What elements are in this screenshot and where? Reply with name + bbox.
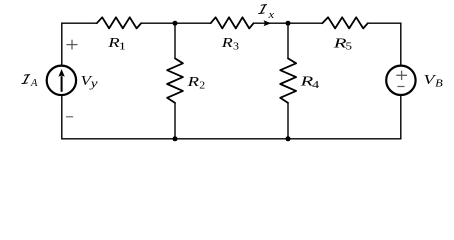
node (bottom, under R2): [173, 136, 178, 141]
wire node B to R5: [288, 22, 322, 24]
svg-text:y: y: [90, 76, 99, 90]
resistor R4 (vertical): [280, 58, 296, 103]
node B (top junction R3/R4/R5): [286, 21, 291, 26]
wire R4 to bottom node: [287, 103, 289, 139]
svg-text:1: 1: [119, 42, 126, 53]
svg-text:x: x: [267, 10, 275, 21]
svg-text:R: R: [186, 74, 200, 89]
svg-text:2: 2: [199, 80, 205, 91]
wire left upper: source IA up, top-left corner, to R1: [62, 23, 97, 65]
wire node A to R3: [175, 22, 211, 24]
node A (top junction R1/R2/R3): [173, 21, 178, 26]
wire R1 to node A: [141, 22, 175, 24]
wire node B down to R4: [287, 23, 289, 58]
wire right upper: R5, top-right corner, down to source VB: [368, 23, 401, 65]
wire R3 to node B: [254, 22, 288, 24]
label Ix: glyph I: [258, 5, 267, 14]
svg-text:A: A: [30, 78, 38, 89]
wire node A down to R2: [174, 23, 176, 58]
svg-text:B: B: [435, 79, 443, 90]
plus sign (gray, above source IA): [66, 40, 77, 50]
minus sign inside VB (gray): [397, 86, 404, 88]
current source IA (circle): [47, 66, 76, 95]
svg-text:4: 4: [312, 80, 319, 91]
svg-text:3: 3: [233, 41, 239, 52]
resistor R2 (vertical): [167, 58, 183, 103]
arrow inside IA: shaft: [61, 76, 63, 92]
plus sign inside VB (gray): [396, 71, 407, 80]
wire R2 to bottom node: [174, 103, 176, 139]
voltage source VB (circle): [386, 66, 415, 95]
node (bottom, under R4): [286, 136, 291, 141]
svg-text:5: 5: [346, 42, 353, 53]
resistor R5: [322, 17, 368, 28]
wire bottom rail: source IA down, bottom-left corner, bottom wire, bottom-right corner, up to source VB: [62, 95, 401, 139]
label IA: glyph I: [22, 75, 31, 84]
current arrow Ix: [264, 20, 272, 26]
resistor R3: [211, 17, 254, 28]
svg-text:R: R: [220, 35, 233, 50]
minus sign (gray, below source IA): [66, 116, 73, 118]
arrow inside IA: head: [58, 69, 64, 77]
resistor R1: [97, 17, 141, 28]
